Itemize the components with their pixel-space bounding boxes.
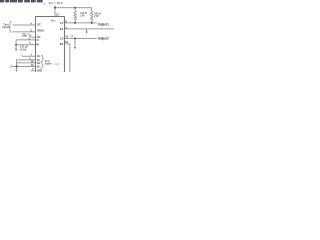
svg-text:2IN+: 2IN+ xyxy=(37,63,41,65)
wire ground chain left column xyxy=(16,60,18,70)
svg-text:12 kΩ: 12 kΩ xyxy=(20,49,27,52)
IC U1 TL494 box xyxy=(35,17,64,72)
stray mark (superscript) xyxy=(44,3,46,4)
wire E2 down xyxy=(64,44,70,72)
wire 1IN+ xyxy=(22,55,35,57)
svg-text:11: 11 xyxy=(65,35,68,39)
node junction dot C1-R1 xyxy=(74,22,76,24)
terminal tick 1IN+ xyxy=(21,54,23,56)
wire GND pin stub (cut off) xyxy=(31,70,36,72)
ground bottom left xyxy=(15,70,18,72)
node junction dot VCC rail at R1 xyxy=(74,7,76,9)
svg-text:E1: E1 xyxy=(60,27,64,31)
svg-text:2 W: 2 W xyxy=(80,14,85,17)
wire E1 line to right edge xyxy=(64,28,114,30)
background xyxy=(0,0,120,72)
title text (cut off at top) xyxy=(0,0,43,2)
wire C2 output line xyxy=(64,37,96,39)
node junction dot VCC rail left xyxy=(54,7,56,9)
resistor R2 xyxy=(90,11,93,23)
brace error amplifier 1 xyxy=(41,55,44,62)
svg-text:FEEDBACK: FEEDBACK xyxy=(37,29,44,32)
wire CT xyxy=(16,39,35,41)
tick near C2 junction xyxy=(71,35,73,37)
wire R1 top lead xyxy=(74,8,76,11)
wire VCC drop to pin 12 xyxy=(54,5,56,16)
wire OUTPUT CTRL xyxy=(31,36,36,38)
ground below C2 junction xyxy=(74,47,77,49)
brace upper test inputs xyxy=(9,21,12,32)
svg-text:1IN+: 1IN+ xyxy=(37,56,41,58)
wire VCC rail xyxy=(55,8,92,11)
svg-text:10: 10 xyxy=(65,40,69,44)
wire RT xyxy=(16,44,35,46)
brace error amplifier 2 xyxy=(41,62,44,69)
node junction dot 2IN- xyxy=(16,65,18,67)
svg-text:GND: GND xyxy=(22,36,27,38)
wire 2IN- xyxy=(13,65,36,67)
svg-text:VCC: VCC xyxy=(51,19,56,22)
svg-text:E2: E2 xyxy=(60,42,64,46)
ground below capacitor xyxy=(15,49,17,52)
resistor R1 xyxy=(74,11,77,23)
svg-text:GND: GND xyxy=(37,70,42,72)
terminal circle 2IN- xyxy=(10,65,12,67)
capacitor CT vertical leg xyxy=(15,40,17,49)
wire C2 to ground xyxy=(74,38,76,47)
svg-text:DTC: DTC xyxy=(37,23,41,26)
x-mark on CT wire xyxy=(24,39,26,41)
ground on E1 line xyxy=(86,29,88,32)
svg-text:2IN−: 2IN− xyxy=(37,66,41,68)
svg-text:Amplifier: Amplifier xyxy=(45,62,52,65)
wire C1 output line xyxy=(64,22,97,24)
node junction dot C2 xyxy=(74,37,76,39)
svg-text:1.4 V: 1.4 V xyxy=(54,64,60,66)
wire FEEDBACK xyxy=(13,31,36,33)
svg-text:2 W: 2 W xyxy=(94,15,99,18)
node junction dot CT/RT xyxy=(15,44,17,46)
svg-text:1IN−: 1IN− xyxy=(37,60,41,62)
svg-text:C2: C2 xyxy=(60,37,64,41)
svg-text:C1: C1 xyxy=(60,21,64,25)
wire 1IN- xyxy=(17,59,36,61)
wire DTC xyxy=(13,24,36,26)
svg-text:Output 1: Output 1 xyxy=(98,23,109,27)
svg-text:Output 2: Output 2 xyxy=(98,37,109,41)
node junction dot C1-R2 xyxy=(91,22,93,24)
wire 2IN+ xyxy=(17,62,36,64)
